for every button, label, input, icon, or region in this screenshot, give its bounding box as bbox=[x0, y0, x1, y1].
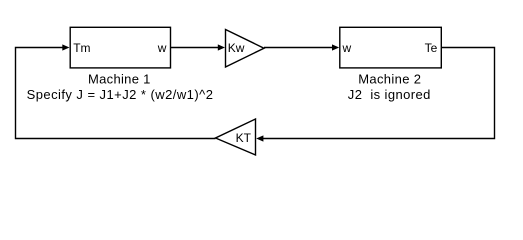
svg-text:Tm: Tm bbox=[73, 41, 90, 55]
svg-text:Specify J = J1+J2 * (w2/w1)^2: Specify J = J1+J2 * (w2/w1)^2 bbox=[27, 87, 214, 102]
wire: Machine 2 Te output, right then down then left into gain KT input bbox=[263, 48, 495, 139]
svg-text:w: w bbox=[342, 41, 352, 55]
gain block KT (left-pointing triangle) bbox=[216, 119, 256, 155]
wire: Machine 1 w output to gain Kw input bbox=[171, 47, 219, 49]
svg-text:Machine 2: Machine 2 bbox=[358, 72, 421, 87]
svg-text:Kw: Kw bbox=[228, 41, 245, 55]
svg-text:w: w bbox=[157, 41, 167, 55]
wire: feedback loop from gain KT output, left then up then right into Machine 1 input bbox=[16, 48, 216, 139]
arrowhead into gain KT input (pointing left) bbox=[256, 135, 263, 141]
svg-text:Te: Te bbox=[425, 41, 438, 55]
block Machine 2 bbox=[340, 27, 442, 68]
gain block Kw (right-pointing triangle) bbox=[226, 30, 265, 68]
wire: gain Kw output to Machine 2 w input bbox=[264, 47, 333, 49]
arrowhead into Machine 1 Tm port bbox=[62, 44, 69, 50]
svg-text:Machine 1: Machine 1 bbox=[88, 72, 151, 87]
svg-text:J2 is ignored: J2 is ignored bbox=[348, 87, 431, 102]
arrowhead into gain Kw input bbox=[218, 44, 225, 50]
block Machine 1 bbox=[70, 27, 170, 68]
arrowhead into Machine 2 w port bbox=[332, 44, 339, 50]
svg-text:KT: KT bbox=[236, 131, 252, 145]
